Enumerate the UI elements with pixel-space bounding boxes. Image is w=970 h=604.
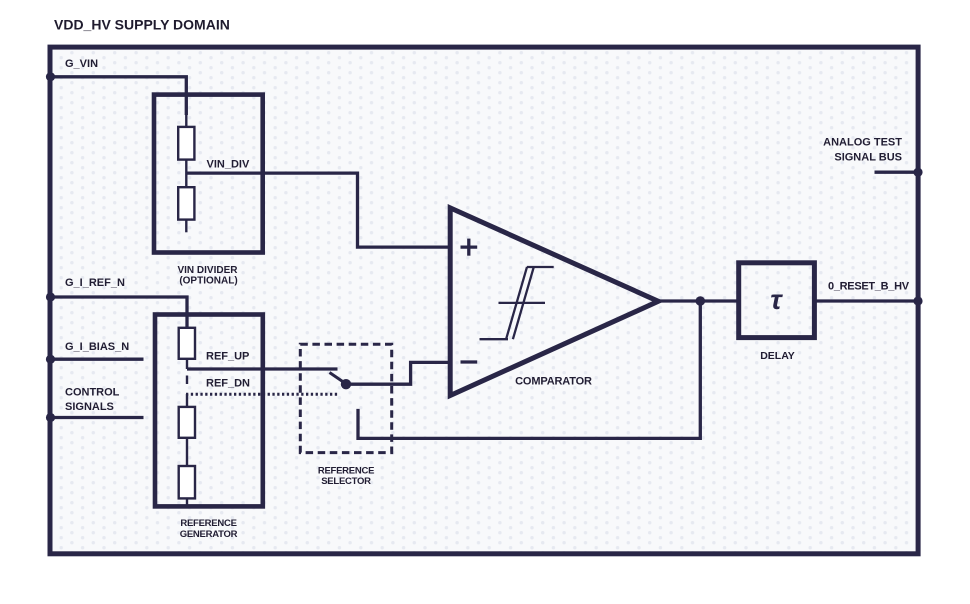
svg-text:CONTROL: CONTROL <box>65 386 120 398</box>
svg-text:τ: τ <box>770 284 783 315</box>
svg-text:0_RESET_B_HV: 0_RESET_B_HV <box>828 281 910 293</box>
svg-text:VDD_HV SUPPLY DOMAIN: VDD_HV SUPPLY DOMAIN <box>54 17 230 33</box>
svg-text:G_I_REF_N: G_I_REF_N <box>65 277 125 289</box>
svg-text:SIGNALS: SIGNALS <box>65 401 114 413</box>
svg-text:ANALOG TEST: ANALOG TEST <box>823 137 902 149</box>
svg-text:SIGNAL BUS: SIGNAL BUS <box>834 152 902 164</box>
svg-text:COMPARATOR: COMPARATOR <box>515 376 592 388</box>
svg-text:REFERENCE: REFERENCE <box>180 518 236 529</box>
svg-text:REF_DN: REF_DN <box>206 377 250 389</box>
svg-text:G_VIN: G_VIN <box>65 58 98 70</box>
svg-text:(OPTIONAL): (OPTIONAL) <box>179 276 237 287</box>
svg-text:DELAY: DELAY <box>760 350 795 362</box>
svg-text:VIN_DIV: VIN_DIV <box>207 159 250 171</box>
svg-text:REF_UP: REF_UP <box>206 350 249 362</box>
svg-text:REFERENCE: REFERENCE <box>318 466 374 477</box>
svg-text:VIN DIVIDER: VIN DIVIDER <box>177 265 238 276</box>
svg-text:G_I_BIAS_N: G_I_BIAS_N <box>65 341 129 353</box>
svg-text:SELECTOR: SELECTOR <box>321 476 371 487</box>
svg-text:GENERATOR: GENERATOR <box>180 529 238 540</box>
